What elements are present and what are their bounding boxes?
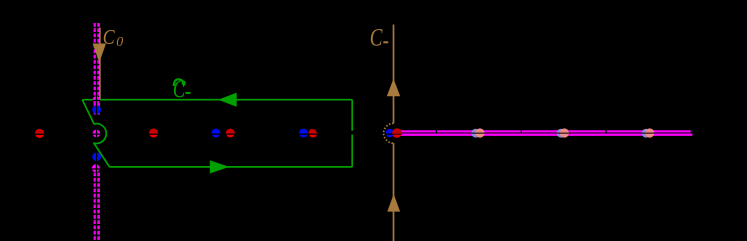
pole: red dot on real axis x=153 [149, 129, 158, 138]
arrow on top edge (leftward) [218, 93, 237, 107]
svg-text:C: C [103, 27, 116, 50]
contour C-: tan vertical line with left semicircle detour [384, 25, 394, 241]
wire: left dashed column upper [94, 23, 96, 115]
wire: right edge lower [351, 135, 353, 167]
zero on cut: blue dot upper [92, 105, 101, 114]
contour C- (green strip) [82, 100, 352, 167]
pole on cut: magenta dot at bottom line [92, 164, 100, 172]
wire: upper dashed segments [399, 130, 436, 132]
wire: left dashed column lower [94, 173, 96, 241]
wire: right dashed column upper [97, 23, 100, 115]
arrow on bottom edge (rightward) [210, 160, 230, 173]
arrow up (lower) [387, 194, 400, 212]
zero: blue dot x=216 [212, 129, 221, 138]
zero pair 1: blueviolet + salmon dots [471, 128, 485, 137]
arrow up (upper) [387, 79, 400, 97]
pole: red dot x=313 [309, 129, 318, 138]
poles on cut: magenta dot at top line [93, 96, 101, 104]
wire: left zigzag with semicircle around pole [82, 100, 109, 167]
pole on cut: magenta dot center (inside semicircle) [93, 129, 101, 137]
contour C0: tan arrow along cut (left figure) [93, 28, 106, 100]
zero: blue dot x=303.5 [299, 129, 308, 138]
zero on cut: blue dot lower [92, 152, 101, 161]
wire: lower vertical segment [393, 143, 395, 241]
branch cut: vertical double dashed magenta line [95, 23, 99, 241]
wire: top edge [82, 99, 352, 101]
wire: right dashed column lower [97, 173, 100, 241]
zero pair 3 [642, 128, 655, 137]
svg-text:C: C [370, 23, 383, 51]
wire: lower solid line [399, 134, 692, 136]
wire: upper vertical segment [393, 25, 395, 124]
wire: right edge upper [351, 100, 353, 131]
zero pair 2 [557, 128, 570, 137]
branch cut: horizontal double magenta line [399, 131, 692, 134]
zero: blue dot at origin [385, 129, 394, 137]
wire: bottom edge [110, 166, 353, 168]
pole: red dot far left on real axis [35, 129, 44, 138]
svg-text:0: 0 [116, 35, 123, 50]
pole: red dot x=230 [226, 129, 235, 138]
pole: red dot at origin [392, 128, 402, 138]
wire: dashed semicircle detour around origin [384, 123, 394, 143]
